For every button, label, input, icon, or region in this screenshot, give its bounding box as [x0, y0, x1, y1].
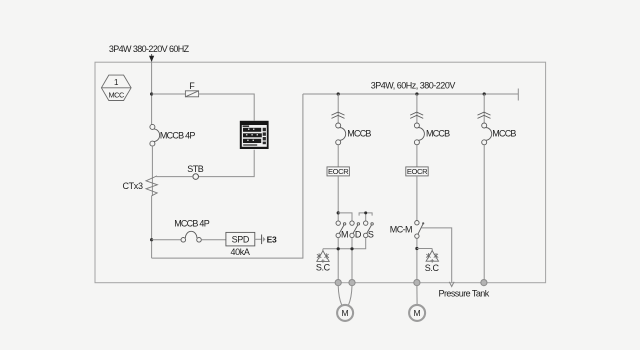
svg-text:S.C: S.C [316, 263, 331, 273]
wire: STB to main riser [157, 176, 193, 178]
motor M1 [337, 305, 353, 321]
svg-text:MCCB 4P: MCCB 4P [174, 218, 210, 228]
label: 40kA [230, 247, 249, 257]
breaker MCCB 4P (main, vertical) [150, 124, 160, 146]
terminal bushing feeder 3 [481, 280, 487, 286]
label: MC-M [390, 225, 412, 235]
wire: breaker to CT [151, 146, 153, 196]
label: MCCB 4P (SPD branch) [174, 218, 210, 228]
svg-text:S.C: S.C [425, 263, 440, 273]
wire: SPD to earth E3 [255, 238, 262, 240]
label: Pressure Tank [439, 288, 490, 298]
breaker MCCB 4P (SPD branch, horizontal) [181, 231, 201, 242]
label: F [189, 81, 195, 91]
svg-text:MCC: MCC [109, 90, 125, 99]
label: MCCB feeder 3 [492, 129, 516, 139]
surge capacitor S.C feeder 2 [426, 249, 438, 263]
node: SPD branch junction [150, 238, 153, 241]
terminal bushing feeder1 D [349, 280, 355, 286]
fuse F [185, 91, 198, 97]
wire: feeder 1 breaker to EOCR [337, 145, 339, 168]
digital power meter [240, 121, 269, 149]
wire: EOCR to contactor MC-M [416, 176, 418, 221]
terminal STB [193, 174, 199, 180]
node: feeder 3 tap [483, 92, 486, 95]
label: STB [187, 164, 204, 174]
wire: bracket to contactor D [338, 213, 352, 221]
bus end cap [517, 89, 519, 101]
svg-text:3P4W 380-220V 60HZ: 3P4W 380-220V 60HZ [109, 44, 190, 54]
svg-text:S: S [368, 230, 374, 240]
wire: feeder 2 drop to breaker [416, 94, 418, 123]
drawout chevrons feeder 3 [478, 112, 491, 118]
wire: branch to fuse F [152, 93, 186, 95]
svg-text:F: F [189, 81, 195, 91]
arrowhead to pressure tank [449, 282, 454, 287]
wire: to motor 1 [338, 286, 352, 306]
svg-text:M: M [414, 308, 421, 318]
svg-text:MCCB 4P: MCCB 4P [160, 130, 196, 140]
svg-text:MCCB: MCCB [492, 129, 516, 139]
breaker MCCB feeder 1 [336, 123, 346, 145]
label: S contactor [368, 230, 374, 240]
wire: M contactor down [337, 238, 339, 280]
svg-text:SPD: SPD [232, 235, 250, 245]
wire: feeder 1 drop to breaker [337, 94, 339, 123]
wire: left loop bottom return to bus riser [152, 94, 303, 258]
current transformer CTx3 zigzag [146, 176, 157, 196]
node: S bracket junction [364, 211, 367, 214]
relay EOCR feeder 2 [406, 167, 428, 176]
node: tie bus at M [337, 247, 340, 250]
wire: feeder 3 drop to breaker [483, 94, 485, 123]
svg-text:EOCR: EOCR [407, 167, 428, 176]
incoming feed arrowhead [149, 56, 154, 62]
svg-text:MCCB: MCCB [347, 129, 371, 139]
breaker MCCB feeder 3 [482, 123, 492, 145]
label: MCCB 4P (main) [160, 130, 196, 140]
node: feeder 1 tap [337, 92, 340, 95]
node: S.C branch feeder 2 [415, 247, 418, 250]
svg-text:STB: STB [187, 164, 204, 174]
svg-text:E3: E3 [267, 235, 277, 245]
wire: junction to branch breaker [152, 239, 181, 241]
bus: 3P4W 60Hz 380-220V horizontal bus [303, 93, 518, 95]
node: starter top junction [337, 211, 340, 214]
label: S.C feeder 1 [316, 263, 331, 273]
contactor MC-M [415, 221, 425, 239]
wire: feeder 3 down to bushing [483, 145, 485, 280]
svg-text:3P4W, 60Hz, 380-220V: 3P4W, 60Hz, 380-220V [371, 80, 456, 90]
wire: to S.C feeder 2 [417, 248, 432, 250]
relay EOCR feeder 1 [327, 167, 349, 176]
surge capacitor S.C feeder 1 [317, 249, 329, 263]
label: E3 [267, 235, 277, 245]
wire: breaker to SPD box [201, 239, 226, 241]
label: M contactor [341, 230, 348, 240]
node: tie bus at D [350, 247, 353, 250]
wire: MC-M down to bushing [416, 238, 418, 279]
svg-text:MC-M: MC-M [390, 225, 412, 235]
label: 3P4W, 60Hz, 380-220V [371, 80, 456, 90]
svg-text:EOCR: EOCR [328, 167, 349, 176]
wire: starter bottom tie bus [323, 238, 366, 249]
MCC panel border [95, 62, 546, 283]
svg-text:M: M [341, 230, 348, 240]
motor M2 [409, 305, 425, 321]
label: D contactor [355, 230, 362, 240]
wire: to motor 2 [416, 286, 418, 305]
surge protector SPD box [226, 232, 255, 246]
label: MCCB feeder 2 [426, 129, 450, 139]
label: MCCB feeder 1 [347, 129, 371, 139]
label: 3P4W 380-220V 60HZ incoming feed [109, 44, 190, 54]
MCC hexagon symbol 1/MCC [101, 75, 131, 100]
wire: EOCR to starter junction [337, 176, 339, 221]
contactor S [364, 221, 374, 238]
svg-text:1: 1 [114, 78, 119, 87]
node: riser/fuse branch junction [150, 92, 153, 95]
terminal bushing feeder 2 [414, 280, 420, 286]
contactor D [350, 221, 360, 238]
earth electrode E3 symbol [262, 235, 266, 245]
wire: bracket for contactor S [359, 213, 372, 221]
svg-text:CTx3: CTx3 [123, 181, 143, 191]
breaker MCCB feeder 2 [414, 123, 424, 145]
svg-text:D: D [355, 230, 362, 240]
drawout chevrons feeder 2 [410, 112, 423, 118]
label: CTx3 [123, 181, 143, 191]
wire: incoming feed drop [151, 54, 153, 62]
svg-text:M: M [342, 308, 349, 318]
wire: pressure tank sense line [422, 228, 452, 283]
wire: feeder 2 breaker to EOCR [416, 145, 418, 168]
wire: fuse to meter [199, 94, 255, 121]
svg-text:MCCB: MCCB [426, 129, 450, 139]
wire: meter to STB [199, 150, 255, 177]
svg-text:Pressure Tank: Pressure Tank [439, 288, 490, 298]
wire: D contactor down [351, 238, 353, 280]
node: feeder 2 tap [415, 92, 418, 95]
contactor M [336, 221, 346, 238]
drawout chevrons feeder 1 [332, 112, 345, 118]
terminal bushing feeder1 M [335, 280, 341, 286]
wire: main riser [151, 62, 153, 124]
svg-text:40kA: 40kA [230, 247, 249, 257]
wire: CT down to SPD branch junction [151, 196, 153, 258]
label: S.C feeder 2 [425, 263, 440, 273]
